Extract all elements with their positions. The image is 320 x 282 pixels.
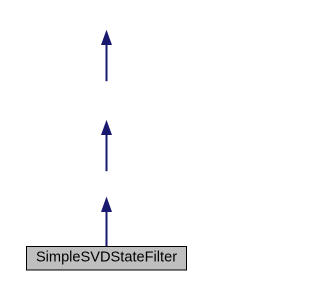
svg-text:SimpleSVDStateFilter: SimpleSVDStateFilter [36, 250, 177, 266]
inheritance arrow 3 (bottom) [101, 197, 112, 247]
inheritance arrow 2 (middle) [101, 120, 112, 171]
class node SimpleSVDStateFilter [27, 247, 187, 271]
inheritance arrow 1 (top) [101, 30, 112, 81]
